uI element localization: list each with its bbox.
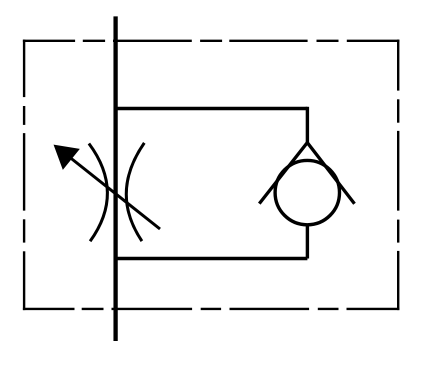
enclosure dashed border left edge — [23, 40, 25, 311]
wire bypass top — [114, 107, 308, 110]
throttle adjustment arrow shaft — [70, 158, 160, 230]
wire bypass right lower — [306, 224, 309, 259]
throttle valve F1 left arc — [89, 144, 108, 242]
enclosure dashed border right edge — [397, 40, 399, 311]
throttle adjustment arrow head — [54, 145, 79, 169]
check valve V1 seat — [259, 143, 354, 204]
enclosure dashed border top edge — [23, 40, 399, 42]
wire bypass bottom — [114, 257, 308, 260]
wire bypass right upper — [306, 107, 309, 143]
enclosure dashed border bottom edge — [23, 308, 399, 310]
throttle valve F1 right arc — [126, 143, 144, 241]
main flow line (thick vertical pipe) — [113, 16, 117, 341]
check valve V1 ball — [275, 160, 339, 224]
